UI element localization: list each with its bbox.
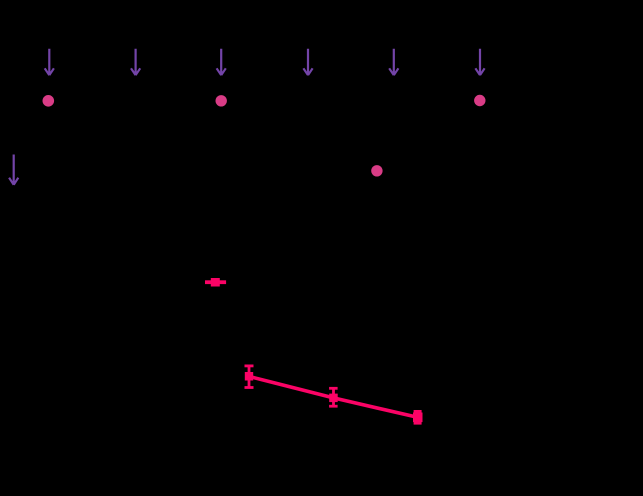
error bar point C — [413, 410, 423, 425]
magenta dot 3 — [474, 95, 485, 106]
line segment A-B — [249, 376, 334, 398]
isolated square point with horizontal error bar — [205, 278, 226, 287]
magenta dot 2 — [216, 95, 227, 106]
left treatment arrow — [9, 155, 18, 185]
treatment arrow 4 — [303, 49, 312, 75]
treatment arrow 3 — [217, 49, 226, 75]
magenta dot 4 — [371, 165, 382, 176]
error bar point B — [329, 387, 338, 408]
treatment arrow 2 — [131, 49, 140, 75]
treatment arrow 1 — [45, 49, 54, 75]
treatment arrow 6 — [475, 49, 484, 75]
magenta dot 1 — [43, 95, 55, 107]
error bar point A — [245, 365, 254, 389]
treatment arrow 5 — [389, 49, 398, 75]
line segment B-C — [334, 398, 418, 417]
